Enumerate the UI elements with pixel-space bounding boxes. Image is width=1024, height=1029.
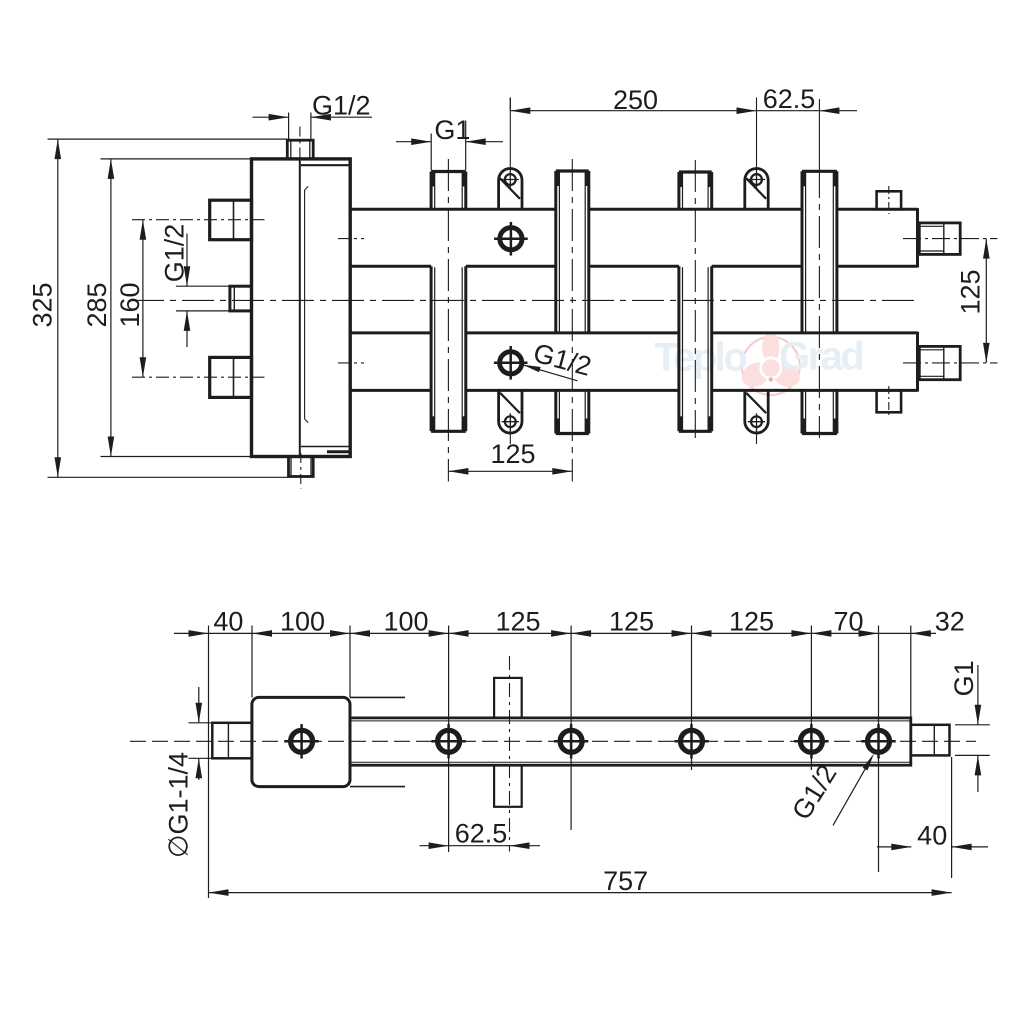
svg-text:285: 285: [82, 282, 112, 327]
svg-text:100: 100: [280, 607, 325, 637]
svg-text:40: 40: [213, 607, 243, 637]
pipe B centerline: [571, 159, 573, 482]
bottom port 2: [438, 730, 460, 752]
pipe A centerline: [447, 159, 449, 482]
upper manifold bar: [350, 208, 556, 211]
pipe C centerline: [694, 160, 696, 438]
svg-text:125: 125: [609, 607, 654, 637]
bottom cross pipe stub above bar: [494, 678, 522, 718]
body inner partition vertical: [299, 160, 301, 455]
bottom dimension chain line: [174, 632, 911, 634]
body inner bottom edge: [301, 446, 349, 448]
svg-text:757: 757: [603, 866, 648, 896]
dimension G1 (pipe A stub): [430, 134, 432, 171]
svg-text:250: 250: [613, 85, 658, 115]
svg-text:160: 160: [115, 282, 145, 327]
main horizontal axis (top view): [132, 299, 920, 301]
pipe D upper section through upper bar: [801, 171, 804, 333]
bottom cross pipe stub below bar: [494, 765, 522, 807]
dimension 62.5 bottom: [420, 845, 449, 847]
svg-text:325: 325: [28, 282, 58, 327]
pipe A lower section through lower bar: [430, 266, 433, 431]
body top stub centerline: [299, 127, 301, 163]
side port P1 (G1 top left): [210, 200, 252, 240]
bottom left fitting G1-1/4: [212, 723, 252, 759]
svg-text:125: 125: [956, 269, 986, 314]
dimension 125 vertical (bar end ports): [985, 239, 987, 363]
pipe C lower section through lower bar: [677, 266, 680, 431]
svg-text:70: 70: [833, 607, 863, 637]
svg-text:Teplo: Teplo: [654, 336, 746, 380]
bottom port 3: [560, 730, 582, 752]
bottom port 6: [868, 730, 890, 752]
leader G1/2 (lower bar port): [524, 365, 578, 381]
mounting lug lower L3: [499, 390, 522, 433]
svg-text:62.5: 62.5: [455, 818, 508, 848]
lower bar end fitting: [919, 346, 960, 379]
body inner bottom bold segment: [327, 450, 350, 453]
dimension 285 vertical: [101, 158, 252, 160]
svg-text:G1: G1: [949, 660, 979, 696]
bottom bar: [350, 718, 911, 765]
lug L1 centerline: [509, 98, 511, 172]
body bottom stub centerline: [300, 453, 302, 489]
side port P1 centerline: [132, 219, 265, 221]
bottom right end fitting G1: [911, 725, 950, 756]
dimension 125 (pipe A to pipe B): [448, 470, 572, 472]
side port P3 centerline: [132, 376, 265, 378]
dimension 325 vertical: [48, 138, 288, 140]
svg-text:G1/2: G1/2: [160, 224, 190, 283]
bottom view horizontal axis: [130, 740, 976, 742]
pipe D centerline: [818, 99, 820, 166]
upper bar centerline left stub: [338, 238, 364, 240]
svg-text:125: 125: [729, 607, 774, 637]
upper bar front port G1/2: [500, 228, 522, 250]
label diameter G1-1/4: [189, 722, 213, 724]
dimension G1/2 (middle side port): [176, 285, 229, 287]
lower manifold bar: [350, 331, 432, 334]
body inner weld line with chamfers: [304, 190, 306, 419]
svg-text:Grad: Grad: [779, 335, 862, 379]
pipe D bottom stub: [801, 390, 804, 433]
body bottom stub G1/2: [289, 457, 314, 477]
pipe B bottom stub: [554, 390, 557, 433]
bottom cross pipe centerline: [509, 656, 511, 852]
dimension 250 (lug spacing): [509, 98, 511, 111]
svg-text:40: 40: [917, 821, 947, 851]
bottom port 5: [800, 730, 822, 752]
label G1 bottom right: [955, 724, 990, 726]
bottom dimension chain extension lines: [208, 626, 210, 899]
bottom body edge extensions: [350, 696, 405, 698]
upper bar centerline right / fitting axis: [903, 238, 998, 240]
dimension 160 vertical: [142, 220, 144, 378]
svg-text:∅G1-1/4: ∅G1-1/4: [164, 752, 194, 858]
side port P2 (G1/2 middle left): [230, 286, 252, 311]
side port P3 (G1 bottom left): [210, 357, 252, 397]
mounting lug lower L4: [745, 390, 768, 433]
body inner top edge: [301, 164, 349, 166]
lower bar centerline right / fitting axis: [903, 362, 998, 364]
pipe B upper section through upper bar: [554, 171, 557, 333]
svg-text:G1: G1: [434, 115, 470, 145]
dimension 62.5 (lug to pipe D): [757, 110, 820, 112]
svg-text:100: 100: [383, 607, 428, 637]
small stub on upper bar top: [877, 191, 902, 209]
mounting lug upper L2: [745, 169, 768, 210]
separator body outer shell: [252, 159, 351, 457]
svg-text:32: 32: [935, 607, 965, 637]
dimension 40 bottom right: [951, 757, 953, 878]
bottom port 1: [291, 730, 313, 752]
upper bar end fitting: [919, 223, 960, 255]
svg-text:125: 125: [490, 439, 535, 469]
dimension G1/2 (body top stub): [288, 113, 290, 140]
pipe C top stub: [677, 172, 680, 209]
lower bar front port G1/2: [500, 352, 522, 374]
leader G1/2 bottom: [833, 757, 872, 826]
lug L3 centerline: [509, 434, 511, 444]
watermark TeploGrad logo fan: [737, 332, 804, 395]
bottom body square: [252, 697, 350, 786]
dimension 757 overall: [209, 892, 952, 894]
pipe A top stub (G1): [430, 172, 433, 210]
mounting lug upper L1: [499, 169, 522, 210]
lug L4 centerline: [756, 434, 758, 444]
chain arrows: [189, 630, 209, 637]
svg-text:125: 125: [495, 607, 540, 637]
lug L2 centerline: [756, 98, 758, 172]
body top stub G1/2: [287, 140, 313, 159]
svg-text:62.5: 62.5: [763, 84, 816, 114]
small stub under lower bar: [877, 390, 902, 412]
bottom port 4: [681, 730, 703, 752]
lower bar centerline left stub: [338, 362, 364, 364]
svg-text:G1/2: G1/2: [312, 91, 371, 121]
